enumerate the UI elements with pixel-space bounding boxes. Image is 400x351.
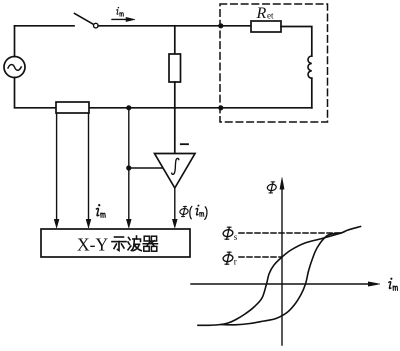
svg-text:X-Y: X-Y	[77, 235, 108, 255]
label Phi_r	[223, 252, 237, 266]
wire coil down to bottom	[311, 78, 313, 108]
node dot on bottom wire	[126, 105, 131, 110]
label Phi_s	[223, 227, 238, 242]
wire top right horizontal to R_et	[98, 25, 251, 27]
dashed box (tested inductor with R_et)	[220, 4, 328, 122]
integral sign	[172, 158, 179, 174]
hysteresis curve ascending branch	[221, 233, 341, 325]
label Phi axis	[267, 182, 277, 193]
label i_m top (switch current)	[117, 7, 124, 16]
wire resistor to integrator	[174, 82, 176, 154]
switch S blade	[75, 14, 94, 25]
node dot bottom	[218, 105, 223, 110]
lead 1 from sampling box to scope with arrow	[54, 113, 59, 228]
svg-text:r: r	[234, 257, 237, 267]
label i_m (scope input)	[97, 204, 106, 217]
dashed line Phi_s	[239, 232, 341, 234]
X-Y oscilloscope box	[41, 229, 190, 257]
resistor R_et box	[251, 21, 281, 32]
node dot top	[218, 23, 223, 28]
wire bottom inner (box)	[221, 107, 312, 109]
resistor R (middle branch)	[174, 26, 176, 54]
arrow under i_m	[112, 17, 135, 21]
hanzi shi	[112, 237, 126, 251]
wire bottom left	[15, 78, 57, 108]
label i_m axis	[389, 278, 398, 291]
lead 2 from sampling box to scope with arrow	[86, 113, 91, 228]
svg-text:R: R	[256, 5, 267, 22]
svg-text:et: et	[267, 11, 274, 21]
dashed line Phi_r	[239, 256, 281, 258]
AC source G1	[4, 57, 25, 78]
wire R_et to right corner	[281, 27, 312, 57]
wire top left horizontal	[15, 25, 75, 27]
switch S contact circle	[94, 23, 99, 28]
hanzi bo	[128, 236, 141, 251]
op-amp integrator U1 (triangle)	[155, 154, 196, 189]
svg-text:s: s	[234, 232, 238, 242]
wire left vertical top (source to top wire)	[14, 26, 16, 57]
sampling resistor box (current sensing)	[56, 102, 89, 113]
AC source sine symbol	[8, 65, 21, 71]
label Phi(i_m) output	[179, 205, 207, 220]
hysteresis curve descending branch	[198, 227, 361, 326]
label minus	[181, 143, 188, 145]
wire bottom main to sampling box	[89, 107, 221, 109]
graph x-axis (i_m)	[191, 282, 380, 286]
lead 4 integrator output to scope with arrow	[172, 188, 177, 228]
hanzi qi	[143, 236, 157, 251]
node dot integrator branch	[126, 165, 131, 170]
inductor L (coil, 3 left bumps)	[308, 56, 312, 78]
wire node to integrator input	[129, 167, 162, 169]
lead 3 i_m to scope with arrow	[126, 108, 131, 228]
graph y-axis (Phi)	[280, 178, 284, 346]
